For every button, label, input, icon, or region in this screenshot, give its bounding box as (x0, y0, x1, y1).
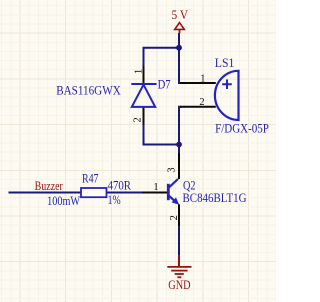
svg-text:1%: 1% (108, 193, 121, 207)
svg-text:1: 1 (134, 69, 145, 74)
svg-text:100mW: 100mW (47, 194, 80, 208)
svg-text:BAS116GWX: BAS116GWX (56, 84, 121, 98)
svg-text:Buzzer: Buzzer (35, 179, 63, 193)
svg-text:3: 3 (166, 167, 177, 172)
svg-text:F/DGX-05P: F/DGX-05P (215, 121, 269, 135)
svg-text:2: 2 (132, 117, 143, 122)
svg-text:GND: GND (168, 278, 190, 292)
svg-text:2: 2 (169, 215, 180, 220)
svg-text:D7: D7 (158, 77, 171, 91)
svg-text:R47: R47 (82, 172, 99, 186)
svg-text:BC846BLT1G: BC846BLT1G (183, 191, 247, 205)
svg-text:470R: 470R (108, 178, 132, 192)
svg-text:LS1: LS1 (215, 56, 235, 70)
svg-text:1: 1 (153, 182, 158, 193)
svg-text:1: 1 (200, 73, 205, 84)
svg-text:2: 2 (199, 97, 204, 108)
svg-text:5 V: 5 V (172, 8, 189, 22)
